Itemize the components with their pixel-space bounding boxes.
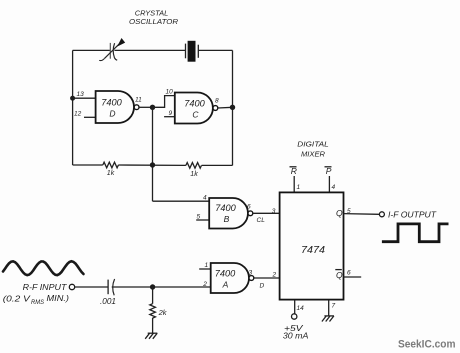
svg-text:P: P: [326, 166, 332, 176]
svg-text:14: 14: [297, 305, 305, 312]
svg-text:7400: 7400: [215, 269, 236, 279]
svg-text:I-F OUTPUT: I-F OUTPUT: [388, 211, 437, 220]
label DIGITAL MIXER: [297, 139, 329, 158]
svg-text:RMS: RMS: [31, 300, 44, 306]
wire pin 5 stub: [196, 219, 209, 221]
wire Qbar pin 6 stub: [344, 276, 362, 278]
svg-text:2: 2: [272, 272, 277, 279]
svg-text:R-F INPUT: R-F INPUT: [23, 282, 68, 292]
wire to gate B pin 4: [153, 200, 210, 202]
wire gate A output to 7474 pin 2: [254, 277, 280, 279]
svg-text:8: 8: [215, 98, 219, 105]
svg-text:30 mA: 30 mA: [283, 331, 309, 341]
node Rbar label: [290, 166, 297, 176]
svg-text:B: B: [224, 214, 230, 224]
capacitor C2 .001: [108, 279, 115, 295]
wire pin 13: [73, 97, 96, 99]
label CRYSTAL OSCILLATOR: [129, 8, 179, 26]
svg-text:7400: 7400: [215, 203, 236, 213]
svg-text:SeekIC.com: SeekIC.com: [398, 338, 456, 350]
svg-text:2k: 2k: [158, 308, 168, 317]
svg-text:12: 12: [74, 111, 82, 118]
wire pin 4 Pbar stub: [328, 176, 330, 192]
ground for pin 7: [322, 316, 334, 322]
node Pbar label: [325, 166, 332, 176]
svg-text:7: 7: [332, 303, 336, 310]
node junction C-output right rail: [230, 105, 235, 110]
label R-F INPUT sine wave: [3, 261, 84, 275]
svg-text:DIGITAL: DIGITAL: [297, 139, 329, 148]
svg-text:(0.2 V: (0.2 V: [3, 294, 32, 304]
svg-text:C: C: [192, 110, 199, 120]
op-amp gate U1C 7400: [175, 93, 218, 124]
resistor R1 1k: [103, 162, 119, 168]
svg-text:A: A: [222, 280, 229, 290]
svg-text:13: 13: [77, 91, 85, 98]
wire pin 9 stub: [164, 116, 175, 118]
resistor R2 1k: [186, 163, 202, 169]
flip-flop U2 7474: [280, 192, 344, 299]
terminal IF output circle: [379, 212, 384, 217]
svg-text:6: 6: [247, 204, 251, 211]
resistor R3 2k vertical: [150, 287, 156, 333]
svg-text:4: 4: [332, 184, 336, 191]
wire pin 7 stub: [328, 300, 330, 316]
svg-text:4: 4: [203, 195, 207, 202]
svg-text:1k: 1k: [190, 171, 198, 178]
svg-text:MIN.): MIN.): [47, 293, 70, 303]
svg-text:D: D: [109, 109, 115, 119]
svg-text:9: 9: [169, 110, 173, 117]
label +5V 30 mA: [283, 323, 309, 340]
variable capacitor C1 trimmer: [99, 39, 124, 61]
svg-text:5: 5: [197, 214, 201, 221]
wire cap to gate A pin 2: [112, 286, 211, 288]
wire pin 1 Rbar stub: [293, 176, 295, 192]
svg-text:R: R: [291, 166, 297, 176]
svg-text:Q: Q: [336, 208, 343, 218]
svg-text:CL: CL: [257, 217, 266, 224]
svg-text:11: 11: [135, 97, 142, 104]
wire Q output pin 5: [344, 213, 380, 216]
wire step to pin 10: [153, 96, 175, 108]
wire gate B output to 7474 pin 3: [253, 212, 280, 214]
wire bottom resistor rail: [73, 164, 233, 166]
op-amp gate U1D 7400: [96, 91, 139, 123]
ground for 2k: [145, 333, 157, 339]
wire RF input to cap: [75, 286, 108, 288]
wire gate C output to right rail: [218, 106, 233, 109]
svg-text:6: 6: [347, 270, 351, 277]
svg-text:1k: 1k: [107, 170, 115, 177]
svg-text:Q: Q: [336, 270, 343, 280]
wire gate D output to junction: [139, 106, 153, 108]
terminal +5V circle: [292, 314, 297, 319]
crystal Y1: [186, 41, 199, 62]
op-amp gate U1B 7400: [209, 198, 253, 229]
terminal RF input circle: [69, 284, 74, 289]
wire left vertical rail: [72, 50, 74, 165]
svg-text:1: 1: [205, 262, 209, 269]
svg-text:3: 3: [272, 208, 276, 215]
wire top feedback rail: [73, 49, 233, 51]
node junction middle rail resistor: [150, 162, 155, 167]
node junction pin13 on left rail: [70, 96, 75, 101]
wire pin 14 stub: [294, 300, 296, 314]
svg-text:.001: .001: [100, 297, 116, 306]
op-amp gate U1A 7400: [211, 263, 254, 293]
wire right vertical rail: [232, 50, 234, 165]
node junction 2k tap: [150, 284, 155, 289]
svg-text:7474: 7474: [301, 244, 325, 256]
node junction D-output: [150, 105, 155, 110]
svg-text:5: 5: [347, 208, 351, 215]
waveform square wave: [382, 224, 449, 242]
svg-text:MIXER: MIXER: [301, 149, 326, 158]
svg-text:OSCILLATOR: OSCILLATOR: [129, 17, 179, 26]
svg-text:3: 3: [249, 270, 253, 277]
svg-text:7400: 7400: [101, 98, 122, 108]
wire middle vertical rail: [152, 107, 154, 201]
svg-text:2: 2: [202, 281, 207, 288]
svg-text:D: D: [260, 283, 265, 290]
wire pin 1 stub: [199, 268, 211, 270]
svg-text:CRYSTAL: CRYSTAL: [135, 8, 169, 17]
svg-text:10: 10: [166, 89, 174, 96]
wire pin 12 stub: [84, 116, 96, 118]
svg-text:7400: 7400: [184, 99, 205, 109]
svg-text:1: 1: [297, 184, 301, 191]
